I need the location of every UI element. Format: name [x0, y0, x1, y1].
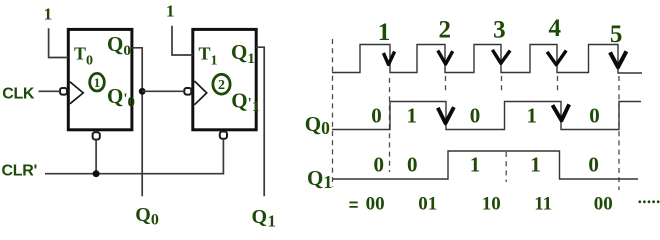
Q1 waveform [333, 151, 638, 179]
wire U1 clear drop [95, 140, 97, 174]
svg-text:0: 0 [470, 104, 481, 128]
flip-flop U1 box (T0) [68, 29, 132, 129]
svg-text:0: 0 [374, 152, 385, 176]
wire CLK input [39, 90, 61, 92]
Q0 falling edge arrow B [553, 104, 570, 120]
svg-text:1: 1 [530, 152, 541, 176]
svg-text:5: 5 [610, 21, 623, 48]
dashed grid line x=558 [557, 76, 559, 91]
svg-text:0: 0 [589, 104, 600, 128]
falling edge arrow 3 [492, 50, 510, 64]
wire 1 to T1 input [172, 26, 193, 55]
svg-text:1: 1 [406, 104, 417, 128]
svg-text:1: 1 [166, 1, 175, 20]
svg-text:1: 1 [94, 75, 101, 90]
svg-text:0: 0 [588, 152, 599, 176]
U1 clock inversion bubble [60, 88, 67, 95]
wire Q0 output (right then down) [132, 48, 142, 197]
svg-text:1: 1 [378, 19, 391, 46]
wire Q0 to U2 clock [142, 90, 184, 92]
wire CLR' bus [45, 139, 223, 174]
U1 clear bubble [93, 132, 100, 139]
svg-text:0: 0 [371, 104, 382, 128]
falling edge arrow 1 [383, 52, 394, 65]
dashed grid line x=390 [389, 78, 391, 172]
svg-text:CLK: CLK [2, 85, 35, 102]
svg-text:0: 0 [407, 152, 418, 176]
svg-text:1: 1 [44, 4, 53, 23]
clock edge triangle U1 [70, 82, 83, 104]
svg-text:00: 00 [366, 194, 385, 215]
falling edge arrow 4 [547, 51, 566, 65]
falling edge arrow 5 [610, 51, 626, 67]
dashed grid line x=332 [332, 39, 334, 187]
svg-text:1: 1 [527, 104, 538, 128]
wire Q1 output (right then down) [256, 47, 264, 196]
svg-text:1: 1 [470, 152, 481, 176]
svg-text:2: 2 [218, 78, 225, 93]
dashed grid line x=446 [445, 76, 447, 91]
wire 1 to T0 input [49, 28, 69, 57]
svg-text:11: 11 [534, 194, 552, 215]
svg-text:4: 4 [549, 15, 562, 42]
U2 clock inversion bubble [184, 88, 191, 95]
dashed grid line x=619 [618, 76, 620, 190]
svg-text:3: 3 [493, 17, 506, 44]
Q0 waveform [332, 102, 641, 130]
flip-flop U2 box (T1) [193, 29, 256, 129]
clock edge triangle U2 [194, 81, 206, 105]
svg-text:01: 01 [418, 194, 437, 215]
node junction CLR/U1 [93, 170, 100, 177]
Q0 falling edge arrow A [438, 107, 454, 123]
dashed grid line x=506 lower [505, 152, 507, 182]
U2 clear bubble [220, 132, 227, 139]
svg-text:=: = [349, 197, 359, 215]
svg-text:00: 00 [594, 194, 613, 215]
continuation dots [638, 200, 659, 203]
node junction Q0/CLK2 [139, 88, 146, 95]
svg-text:2: 2 [439, 17, 452, 44]
falling edge arrow 2 [438, 51, 453, 65]
circled 1 marker U1 [90, 73, 105, 91]
circled 2 marker U2 [213, 74, 230, 94]
svg-text:CLR': CLR' [2, 163, 38, 180]
dashed grid line x=502 [501, 76, 503, 91]
svg-text:10: 10 [482, 194, 501, 215]
CLK waveform [332, 45, 642, 74]
